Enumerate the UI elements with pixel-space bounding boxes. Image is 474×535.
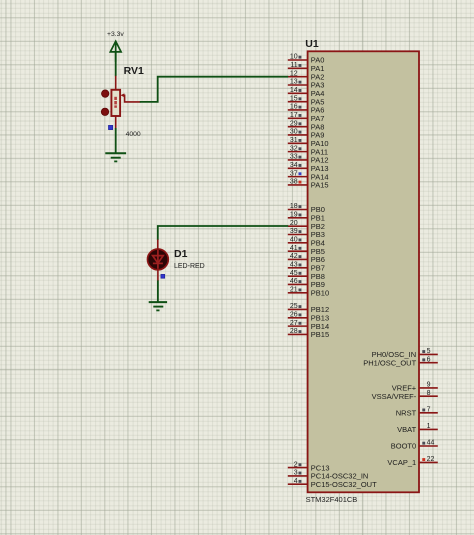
wire RV1 pin3 to ground xyxy=(115,128,117,153)
svg-text:4000: 4000 xyxy=(126,131,141,138)
pin VBAT (1) xyxy=(397,423,438,434)
pin PA13 (34) xyxy=(288,162,329,173)
pin NRST (7) xyxy=(396,407,438,418)
svg-text:22: 22 xyxy=(427,456,435,463)
pin PA11 (32) xyxy=(288,145,328,156)
svg-text:9: 9 xyxy=(427,382,431,389)
ic U1 STM32F401CB body xyxy=(308,51,419,492)
svg-text:27: 27 xyxy=(290,320,298,327)
svg-text:8: 8 xyxy=(427,390,431,397)
svg-text:12: 12 xyxy=(290,70,298,77)
svg-text:39: 39 xyxy=(290,228,298,235)
svg-text:VCAP_1: VCAP_1 xyxy=(387,458,416,467)
svg-text:33: 33 xyxy=(290,154,298,161)
pin PB12 (25) xyxy=(288,303,329,314)
svg-text:PB10: PB10 xyxy=(311,289,329,298)
pin PB5 (41) xyxy=(288,245,325,256)
pin PA3 (13) xyxy=(288,79,325,90)
pin PA12 (33) xyxy=(288,154,329,165)
pin PA7 (17) xyxy=(288,112,325,123)
svg-text:7: 7 xyxy=(427,407,431,414)
svg-text:PC15-OSC32_OUT: PC15-OSC32_OUT xyxy=(311,480,377,489)
svg-text:NRST: NRST xyxy=(396,409,417,418)
svg-text:10: 10 xyxy=(290,54,298,61)
svg-text:11: 11 xyxy=(290,62,297,69)
pin VSSA/VREF- (8) xyxy=(372,390,438,401)
svg-text:26: 26 xyxy=(290,311,298,318)
svg-text:D1: D1 xyxy=(174,248,188,260)
pin VCAP_1 (22) xyxy=(387,456,437,467)
pin PB10 (21) xyxy=(288,287,329,298)
pin PB14 (27) xyxy=(288,320,329,331)
value label 4000 xyxy=(126,131,141,138)
pin BOOT0 (44) xyxy=(391,440,438,451)
svg-text:VBAT: VBAT xyxy=(397,425,416,434)
marker square D1 xyxy=(161,274,165,278)
power +3.3v xyxy=(107,31,124,62)
svg-text:U1: U1 xyxy=(305,38,319,50)
svg-text:5: 5 xyxy=(427,348,431,355)
svg-text:PB15: PB15 xyxy=(311,330,329,339)
reference label D1 xyxy=(174,248,188,260)
wire U1 pin 20 (PB2) to LED D1 anode xyxy=(158,226,288,240)
svg-text:14: 14 xyxy=(290,87,298,94)
svg-text:34: 34 xyxy=(290,162,298,169)
wire RV1 wiper to U1 pin 12 (PA2) xyxy=(140,77,288,102)
svg-text:2: 2 xyxy=(294,461,298,468)
svg-text:40: 40 xyxy=(290,237,298,244)
pin PB0 (18) xyxy=(288,203,325,214)
pin PC13 (2) xyxy=(288,461,330,472)
svg-text:3: 3 xyxy=(294,470,298,477)
pin PA15 (38) xyxy=(288,179,329,190)
svg-text:28: 28 xyxy=(290,328,298,335)
svg-text:16: 16 xyxy=(290,104,298,111)
pin PB1 (19) xyxy=(288,212,325,223)
svg-text:29: 29 xyxy=(290,120,298,127)
node dot RV1 pin1 xyxy=(102,90,109,97)
pin PB8 (45) xyxy=(288,270,325,281)
svg-text:1: 1 xyxy=(427,423,431,430)
svg-text:45: 45 xyxy=(290,270,298,277)
svg-text:+3.3v: +3.3v xyxy=(107,31,124,38)
marker square RV1 xyxy=(109,125,113,129)
potentiometer RV1 xyxy=(111,76,140,129)
pin PB13 (26) xyxy=(288,311,329,322)
pin PC14-OSC32_IN (3) xyxy=(288,470,369,481)
svg-text:PA15: PA15 xyxy=(311,181,329,190)
pin PA1 (11) xyxy=(288,62,325,73)
svg-text:VSSA/VREF-: VSSA/VREF- xyxy=(372,392,417,401)
pin PA2 (12) xyxy=(288,70,325,81)
wire +3.3v to RV1 pin1 xyxy=(115,52,117,76)
svg-text:6: 6 xyxy=(427,356,431,363)
pin PB6 (42) xyxy=(288,253,325,264)
pin PB9 (46) xyxy=(288,278,325,289)
pin PB3 (39) xyxy=(288,228,325,239)
ground (RV1) xyxy=(105,153,126,161)
svg-text:18: 18 xyxy=(290,203,298,210)
pin PA6 (16) xyxy=(288,104,325,115)
svg-text:17: 17 xyxy=(290,112,298,119)
svg-text:41: 41 xyxy=(290,245,298,252)
value label STM32F401CB xyxy=(306,495,358,504)
svg-text:PH1/OSC_OUT: PH1/OSC_OUT xyxy=(363,358,416,367)
LED D1 xyxy=(148,240,169,282)
ground (D1) xyxy=(149,302,167,310)
pin VREF+ (9) xyxy=(392,382,438,393)
svg-text:BOOT0: BOOT0 xyxy=(391,442,416,451)
svg-text:15: 15 xyxy=(290,95,298,102)
pin PC15-OSC32_OUT (4) xyxy=(288,478,377,489)
svg-text:LED-RED: LED-RED xyxy=(174,263,205,270)
wire D1 cathode to ground xyxy=(157,280,159,301)
svg-text:43: 43 xyxy=(290,262,298,269)
value label LED-RED xyxy=(174,263,205,270)
svg-text:STM32F401CB: STM32F401CB xyxy=(306,495,358,504)
svg-text:13: 13 xyxy=(290,79,298,86)
svg-text:20: 20 xyxy=(290,220,298,227)
pin PB15 (28) xyxy=(288,328,329,339)
svg-text:30: 30 xyxy=(290,129,298,136)
svg-text:42: 42 xyxy=(290,253,298,260)
svg-text:25: 25 xyxy=(290,303,298,310)
svg-text:46: 46 xyxy=(290,278,298,285)
svg-text:31: 31 xyxy=(290,137,298,144)
svg-text:38: 38 xyxy=(290,179,298,186)
pin PB2 (20) xyxy=(288,220,325,231)
pin PA10 (31) xyxy=(288,137,329,148)
pin PA0 (10) xyxy=(288,54,325,65)
svg-text:RV1: RV1 xyxy=(124,65,144,77)
svg-text:44: 44 xyxy=(427,440,435,447)
node dot RV1 pin3 xyxy=(101,108,108,115)
reference label RV1 xyxy=(124,65,144,77)
svg-text:4: 4 xyxy=(294,478,298,485)
pin PH0/OSC_IN (5) xyxy=(372,348,438,359)
pin PA4 (14) xyxy=(288,87,325,98)
pin PH1/OSC_OUT (6) xyxy=(363,356,438,367)
reference label U1 xyxy=(305,38,319,50)
pin PA9 (30) xyxy=(288,129,325,140)
svg-text:19: 19 xyxy=(290,212,298,219)
pin PA8 (29) xyxy=(288,120,325,131)
pin PB4 (40) xyxy=(288,237,325,248)
pin PA14 (37) xyxy=(288,170,329,181)
svg-text:21: 21 xyxy=(290,287,298,294)
pin PB7 (43) xyxy=(288,262,325,273)
pin PA5 (15) xyxy=(288,95,325,106)
svg-text:32: 32 xyxy=(290,145,298,152)
svg-text:37: 37 xyxy=(290,170,298,177)
